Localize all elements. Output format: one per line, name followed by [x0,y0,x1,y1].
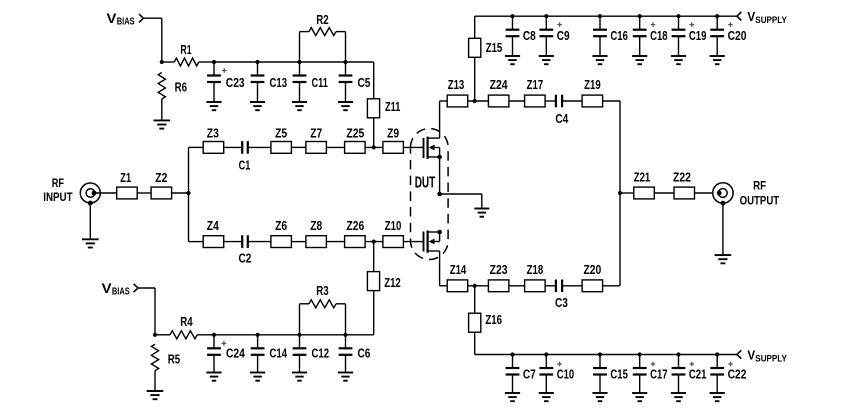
svg-text:Z23: Z23 [490,263,508,277]
svg-text:C9: C9 [557,29,570,43]
svg-text:C4: C4 [555,112,568,126]
svg-text:Z10: Z10 [385,219,402,233]
svg-text:DUT: DUT [415,174,436,191]
svg-text:Z21: Z21 [634,171,651,185]
svg-text:Z22: Z22 [673,171,691,185]
svg-text:BIAS: BIAS [117,17,135,28]
svg-text:Z9: Z9 [387,126,399,140]
svg-text:C20: C20 [728,29,747,43]
svg-text:C12: C12 [312,346,330,360]
svg-text:C22: C22 [728,367,747,381]
svg-text:C19: C19 [689,29,707,43]
svg-text:Z4: Z4 [207,219,219,233]
svg-text:Z14: Z14 [450,263,467,277]
svg-text:R2: R2 [316,13,328,27]
svg-text:BIAS: BIAS [112,287,130,298]
svg-text:Z7: Z7 [310,126,322,140]
svg-text:C5: C5 [358,76,371,90]
svg-text:R4: R4 [180,315,192,329]
svg-text:C24: C24 [226,346,245,360]
svg-text:C3: C3 [555,296,568,310]
svg-text:OUTPUT: OUTPUT [740,193,780,207]
svg-text:C23: C23 [226,76,245,90]
svg-text:R1: R1 [180,43,191,57]
svg-text:SUPPLY: SUPPLY [755,353,787,363]
svg-text:C2: C2 [238,252,251,266]
svg-text:C10: C10 [557,367,575,381]
svg-text:SUPPLY: SUPPLY [755,15,787,25]
svg-text:C21: C21 [689,367,707,381]
svg-text:Z5: Z5 [275,126,287,140]
svg-text:Z15: Z15 [486,41,503,55]
svg-text:C18: C18 [650,29,668,43]
svg-text:R3: R3 [316,284,328,298]
svg-text:Z1: Z1 [120,171,131,185]
svg-text:Z20: Z20 [583,263,601,277]
svg-text:Z6: Z6 [275,219,287,233]
svg-text:Z8: Z8 [310,219,322,233]
svg-text:C11: C11 [312,76,328,90]
svg-text:R6: R6 [175,80,187,94]
svg-text:RF: RF [753,178,766,192]
svg-text:C14: C14 [270,346,288,360]
svg-text:Z17: Z17 [527,78,544,92]
svg-text:Z2: Z2 [155,171,167,185]
svg-text:V: V [102,281,112,296]
svg-text:Z3: Z3 [207,126,219,140]
svg-text:C7: C7 [523,367,536,381]
svg-text:R5: R5 [168,353,180,367]
svg-text:C6: C6 [358,346,371,360]
svg-text:RF: RF [52,176,64,190]
svg-text:V: V [747,348,755,363]
svg-text:C16: C16 [610,29,628,43]
svg-text:Z26: Z26 [346,219,364,233]
svg-text:Z16: Z16 [485,313,502,327]
svg-text:C8: C8 [523,29,536,43]
svg-text:Z25: Z25 [346,126,364,140]
svg-text:Z19: Z19 [584,78,601,92]
svg-text:Z18: Z18 [527,263,544,277]
svg-text:Z11: Z11 [385,100,400,114]
svg-text:INPUT: INPUT [43,190,73,204]
svg-text:V: V [747,9,755,24]
svg-text:C15: C15 [610,367,628,381]
svg-text:C17: C17 [650,367,668,381]
svg-text:Z12: Z12 [384,276,401,290]
svg-text:V: V [107,11,117,26]
svg-text:Z13: Z13 [448,78,465,92]
svg-text:Z24: Z24 [490,78,508,92]
svg-text:C1: C1 [239,158,251,172]
svg-text:C13: C13 [270,76,288,90]
